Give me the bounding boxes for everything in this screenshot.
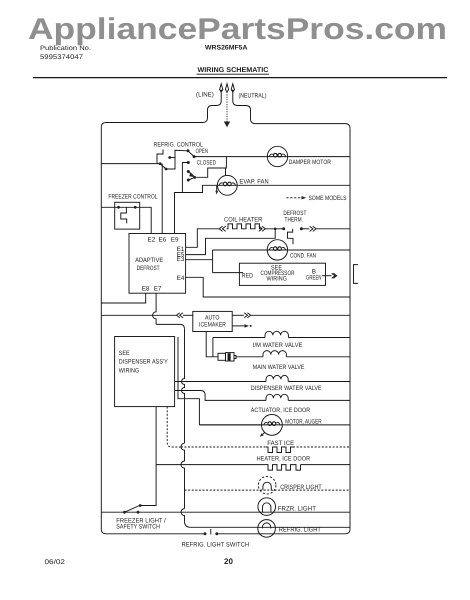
wire E8 to left rail	[101, 293, 145, 303]
wire E7 to bus corner	[156, 324, 184, 329]
svg-text:DISPENSER ASS'Y: DISPENSER ASS'Y	[119, 359, 169, 366]
solenoid dispenser water valve coil	[266, 375, 288, 381]
connector chevron icemaker out	[244, 313, 251, 318]
wire IM row tee	[212, 338, 214, 357]
node icemaker arrowhead	[245, 324, 250, 327]
svg-text:COND. FAN: COND. FAN	[290, 252, 316, 259]
wire chevron to icemaker box	[183, 314, 193, 316]
svg-text:EVAP. FAN: EVAP. FAN	[239, 178, 269, 185]
node contact dot pivot low	[165, 168, 168, 171]
svg-text:E8: E8	[142, 286, 150, 293]
svg-text:ICEMAKER: ICEMAKER	[199, 322, 226, 329]
motor evap fan winding symbol	[219, 183, 236, 186]
wire actuator row to right rail	[288, 399, 350, 401]
switch blade OPEN to pivot	[188, 151, 194, 157]
node freezer contact left	[117, 206, 120, 209]
wire E4 row	[186, 277, 350, 297]
wire dispenser to freezer switch vertical	[141, 407, 156, 506]
wire bottom edge of cabinet with refrig light switch gap	[106, 533, 205, 535]
thermostat defrost therm element	[288, 229, 294, 245]
wire heater to therm junction	[265, 228, 283, 230]
node contact CLOSED	[187, 161, 190, 164]
switch freezer contact line	[119, 206, 136, 208]
wire RED lead to compressor box	[213, 272, 243, 274]
motor auger winding loops	[268, 422, 272, 426]
lamp frzr filament	[263, 503, 271, 512]
fuse connector tick	[229, 354, 236, 361]
svg-text:FREEZER CONTROL: FREEZER CONTROL	[108, 194, 158, 201]
wire pivot to bracket	[166, 150, 188, 169]
wire auger row to right rail	[199, 424, 350, 426]
node evap stub arrowhead	[215, 191, 218, 195]
svg-text:COIL HEATER: COIL HEATER	[224, 216, 263, 223]
svg-text:AppliancePartsPros.com: AppliancePartsPros.com	[28, 13, 447, 46]
wire cond fan tee vertical	[212, 250, 214, 273]
lamp refrig light circle	[258, 520, 276, 538]
wire icemaker top out	[232, 314, 244, 316]
node contact dot aux	[168, 156, 171, 159]
wire freezer control feed	[101, 206, 118, 208]
wire cond fan row left	[213, 249, 268, 251]
header rule	[33, 77, 447, 79]
switch refrig control step detail	[157, 150, 163, 164]
board auto icemaker box	[193, 311, 232, 331]
motor damper winding loops	[274, 153, 278, 157]
connector chevron icemaker feed	[177, 313, 184, 318]
motor auger circle	[262, 415, 283, 436]
board adaptive defrost control box	[129, 234, 186, 294]
wire IM row to right rail	[288, 337, 350, 339]
wire icemaker feed from left rail	[101, 314, 176, 316]
node some-models arrowhead	[302, 196, 307, 199]
svg-text:CLOSED: CLOSED	[197, 159, 216, 166]
svg-text:20: 20	[224, 557, 233, 566]
node refrig light switch contact right	[215, 532, 218, 535]
svg-text:SAFETY SWITCH: SAFETY SWITCH	[116, 523, 160, 530]
svg-text:E6: E6	[159, 236, 167, 243]
heater defrost coil element	[227, 224, 262, 229]
svg-text:I/M WATER VALVE: I/M WATER VALVE	[253, 342, 303, 349]
wire damper motor row left	[194, 156, 350, 158]
box see compressor wiring	[239, 263, 325, 285]
wire right rail	[349, 128, 351, 529]
wire bus B hop at frzr row	[181, 509, 184, 522]
switch refrigerator control feed from left rail	[101, 163, 160, 165]
svg-text:E3: E3	[177, 256, 185, 263]
wire freezer switch feed from left rail	[101, 511, 138, 513]
wire fast ice dashed drop from dispenser box	[167, 407, 181, 447]
motor evap fan winding loops	[223, 182, 227, 186]
svg-text:ACTUATOR, ICE DOOR: ACTUATOR, ICE DOOR	[251, 407, 311, 414]
wire evap fan stub arrow	[216, 185, 218, 191]
lamp frzr light circle	[258, 498, 276, 516]
node freezer switch lower contact	[137, 511, 140, 514]
svg-text:MOTOR, AUGER: MOTOR, AUGER	[285, 419, 322, 426]
connector chevron green arrow	[332, 273, 337, 278]
wire icemaker bottom drop to main valve row	[206, 332, 218, 357]
node auger stub arrowhead	[260, 433, 264, 437]
wire heater row to right rail	[301, 464, 351, 466]
solenoid actuator ice door coil	[266, 394, 288, 400]
svg-text:MAIN WATER VALVE: MAIN WATER VALVE	[253, 364, 305, 371]
svg-text:(NEUTRAL): (NEUTRAL)	[239, 93, 267, 100]
wire main row to right rail	[286, 356, 350, 358]
motor damper circle	[267, 146, 287, 166]
wire crisper dashed hook from bus	[185, 489, 351, 491]
svg-text:06/02: 06/02	[45, 559, 66, 566]
wire bottom edge right part	[217, 533, 345, 535]
wire cond fan row to right rail	[213, 249, 350, 251]
wire E2 from freezer control	[135, 207, 151, 233]
wire E5 to heater junction	[186, 229, 276, 255]
connector chevron left of coil heater	[219, 226, 226, 231]
wire closed-to-evap vertical	[225, 168, 227, 175]
wire GREEN arrow out	[322, 275, 332, 277]
node neutral-in arrow	[231, 84, 234, 92]
wire main valve row mid	[236, 356, 263, 358]
wire neutral entry drop	[233, 92, 350, 128]
svg-text:AUTO: AUTO	[205, 314, 220, 321]
wire CLOSED contact drop	[182, 163, 188, 193]
node down arrowhead	[224, 122, 230, 128]
svg-text:E4: E4	[177, 275, 185, 282]
wire dispenser valve row from box with hops	[175, 381, 266, 383]
wire E3 to cond fan tee	[186, 259, 213, 261]
svg-text:FAST ICE: FAST ICE	[267, 440, 294, 447]
heater fast ice element	[266, 447, 293, 453]
svg-text:THERM.: THERM.	[285, 216, 304, 223]
svg-text:SOME MODELS: SOME MODELS	[309, 195, 347, 202]
wire therm row to right rail	[316, 228, 350, 230]
node refrig light switch contact left	[204, 532, 207, 535]
wire left rail	[100, 127, 102, 529]
switch blade lower	[160, 164, 166, 169]
svg-text:HEATER, ICE DOOR: HEATER, ICE DOOR	[257, 456, 311, 463]
switch freezer control box	[115, 202, 140, 229]
node freezer switch upper contact	[139, 504, 142, 507]
solenoid main water valve coil	[263, 351, 286, 357]
motor cond fan circle	[267, 240, 287, 260]
wire fast ice dashed row left	[181, 446, 266, 448]
wire actuator staircase from dispenser box	[175, 391, 266, 401]
wire L1 entry drop	[101, 92, 221, 127]
fuse connector pair on main valve row	[218, 353, 226, 360]
wire heater ice door row from dispenser vertical	[156, 464, 266, 466]
wire auger row left	[199, 424, 261, 426]
node defrost therm contact right	[300, 227, 303, 230]
node contact dot pivot on damper feed	[193, 155, 196, 158]
sensor freezer control staircase	[121, 207, 127, 223]
lamp crisper light circle dashed	[258, 476, 276, 494]
node junction dot E5 riser	[274, 228, 277, 231]
wire icemaker bottom arrow	[232, 325, 244, 327]
node defrost therm contact left	[282, 227, 285, 230]
svg-text:REFRIG. LIGHT SWITCH: REFRIG. LIGHT SWITCH	[182, 541, 250, 548]
svg-text:DEFROST: DEFROST	[137, 265, 160, 272]
wire bus B hop at heater row	[181, 461, 185, 509]
node ground reference arrow (dashed)	[225, 84, 228, 92]
svg-text:SEE: SEE	[119, 350, 130, 357]
svg-text:CRISPER LIGHT: CRISPER LIGHT	[280, 484, 321, 491]
wire icemaker row to right rail	[251, 314, 350, 316]
node contact dot lower pivot	[193, 176, 196, 179]
wire therm to chevron	[301, 228, 309, 230]
motor damper winding symbol	[269, 154, 286, 157]
lamp refrig filament	[262, 523, 270, 529]
svg-text:DAMPER MOTOR: DAMPER MOTOR	[289, 159, 332, 166]
svg-text:WIRING SCHEMATIC: WIRING SCHEMATIC	[198, 67, 269, 74]
motor cond fan winding symbol	[269, 247, 286, 250]
svg-text:5995374047: 5995374047	[40, 54, 83, 61]
wire auger stub arrow	[263, 432, 265, 434]
lamp crisper filament	[263, 482, 271, 490]
wire dispenser row to right rail	[288, 381, 350, 383]
node L1 line-in arrow	[220, 84, 223, 92]
node freezer switch blade base	[123, 511, 126, 514]
wire fast ice dashed row to right rail	[293, 446, 350, 448]
svg-text:RED: RED	[242, 272, 254, 279]
switch freezer light safety blade	[125, 506, 140, 513]
node freezer contact right	[134, 206, 137, 209]
svg-text:E2: E2	[148, 236, 156, 243]
title underline	[197, 73, 270, 75]
wire frzr row left	[138, 511, 350, 513]
connector chevron right of coil heater	[259, 226, 266, 231]
svg-text:Publication No.: Publication No.	[40, 45, 91, 52]
wire evap row to right rail	[218, 184, 350, 186]
wire E1 to coil heater	[186, 229, 219, 248]
node contact lower3	[187, 170, 190, 173]
switch blade lower4	[188, 177, 194, 180]
svg-text:GREEN: GREEN	[306, 274, 322, 281]
svg-text:ADAPTIVE: ADAPTIVE	[135, 257, 163, 264]
wire dashed center drop	[226, 92, 228, 122]
wire left rail bottom corner	[101, 529, 106, 534]
wire E7 drop with hop over icemaker feed	[153, 293, 157, 324]
heater ice door element	[266, 465, 301, 471]
wire aux contact stub	[170, 157, 175, 159]
connector chevron right of therm	[310, 226, 317, 231]
svg-text:WRS26MF5A: WRS26MF5A	[205, 45, 248, 52]
svg-text:WIRING: WIRING	[119, 367, 140, 374]
connector bracket right of rail	[354, 265, 358, 284]
svg-text:REFRIG. LIGHT: REFRIG. LIGHT	[279, 527, 321, 534]
switch refrig light switch blade	[210, 529, 212, 535]
wire E6 drop from refrig control	[161, 164, 163, 234]
wire bus B curve to refrig row	[185, 521, 351, 527]
svg-text:E9: E9	[171, 236, 179, 243]
svg-text:FRZR. LIGHT: FRZR. LIGHT	[278, 505, 316, 512]
node contact lower4	[187, 179, 190, 182]
wire evap fan row left	[175, 185, 218, 233]
wire dashed some-models arrow	[286, 197, 301, 199]
wire bus B segment upper with hops	[182, 329, 185, 443]
wire damper feed descent to pivot	[196, 157, 226, 178]
node contact dot feed	[159, 162, 162, 165]
svg-text:WIRING: WIRING	[267, 276, 288, 283]
node icemaker arrow dot	[250, 325, 252, 327]
box see dispenser assy wiring	[115, 337, 175, 407]
node blade arrowhead at pivot	[189, 172, 195, 177]
svg-text:DISPENSER WATER VALVE: DISPENSER WATER VALVE	[251, 385, 322, 392]
fuse connector dark bar	[228, 353, 231, 360]
solenoid IM water valve coil	[265, 331, 288, 337]
motor evap fan circle	[217, 175, 237, 195]
motor auger winding symbol	[264, 422, 281, 425]
wire bus A from dispenser top corner	[178, 337, 199, 425]
svg-text:E7: E7	[154, 286, 162, 293]
svg-text:OPEN: OPEN	[196, 148, 209, 155]
wire bus B hop at fast ice	[181, 443, 185, 461]
motor cond fan winding loops	[273, 247, 277, 251]
fuse connector body	[226, 353, 235, 361]
node contact OPEN	[187, 149, 190, 152]
svg-text:(LINE): (LINE)	[196, 92, 214, 99]
wire right rail bottom corner	[345, 529, 350, 534]
switch blade lower3	[188, 172, 194, 178]
wire IM valve row left	[213, 337, 265, 339]
